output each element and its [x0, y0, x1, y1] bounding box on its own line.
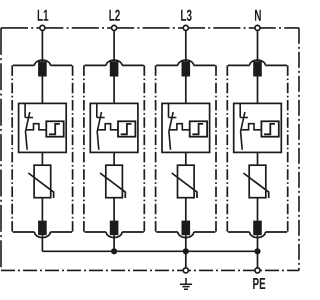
monitoring box L2 [90, 103, 138, 152]
wire L2 terminal to top disconnector [113, 30, 115, 61]
wire L1 terminal to top disconnector [41, 30, 43, 61]
protection module outline L1 (dash-dot sides, plug contacts top/bottom) [12, 60, 72, 238]
thermal disconnector top N [253, 61, 262, 76]
wire bottom disconnector to PE bus L1 [41, 235, 43, 251]
switch contact N [240, 103, 248, 149]
wire bottom disconnector to PE bus N [257, 235, 259, 251]
wire monitoring box to varistor L1 [41, 152, 43, 165]
switch contact L3 [169, 103, 177, 149]
wire N terminal to top disconnector [257, 30, 259, 61]
junction dot L3/bus [183, 248, 189, 254]
terminal L2 [112, 25, 117, 30]
indicator step symbol L1 [49, 124, 60, 134]
varistor N [243, 165, 268, 198]
varistor L1 [28, 165, 53, 198]
protection module outline L2 (dash-dot sides, plug contacts top/bottom) [84, 60, 144, 238]
wire bus to earth terminal [185, 251, 187, 267]
indicator window L3 [190, 121, 207, 136]
wire bottom disconnector to PE bus L2 [113, 235, 115, 251]
indicator window L2 [118, 121, 135, 136]
indicator step symbol L3 [192, 124, 203, 134]
thermal disconnector top L3 [182, 61, 191, 76]
label N [255, 10, 261, 21]
wire disconnector to monitoring box L3 [185, 77, 187, 104]
thermal disconnector top L2 [110, 61, 119, 76]
pulse signal line N [241, 124, 261, 130]
label L2 [109, 10, 120, 21]
switch contact L2 [97, 103, 105, 149]
terminal N [255, 25, 260, 30]
thermal disconnector bottom N [253, 221, 262, 236]
enclosure boundary (dash-dot outer box) [1, 28, 299, 271]
indicator window N [261, 121, 278, 136]
wire L3 terminal to top disconnector [185, 30, 187, 61]
thermal disconnector bottom L2 [110, 221, 119, 236]
pulse signal line L1 [26, 124, 46, 130]
wire monitoring box to varistor N [257, 152, 259, 165]
wire varistor to bottom disconnector N [257, 198, 259, 221]
pulse signal line L3 [169, 124, 189, 130]
junction dot L2/bus [111, 248, 117, 254]
thermal disconnector bottom L1 [38, 221, 47, 236]
wire monitoring box to varistor L2 [113, 152, 115, 165]
wire disconnector to monitoring box L1 [41, 77, 43, 104]
monitoring box N [234, 103, 282, 152]
thermal disconnector top L1 [38, 61, 47, 76]
indicator window L1 [46, 121, 63, 136]
wire disconnector to monitoring box N [257, 77, 259, 104]
monitoring box L1 [19, 103, 67, 152]
ground symbol [180, 278, 192, 289]
label PE [253, 278, 265, 289]
protection module outline L3 (dash-dot sides, plug contacts top/bottom) [156, 60, 216, 238]
PE terminal circle [255, 268, 260, 273]
wire varistor to bottom disconnector L1 [41, 198, 43, 221]
wire disconnector to monitoring box L2 [113, 77, 115, 104]
indicator step symbol N [264, 124, 275, 134]
earth terminal circle [183, 268, 188, 273]
PE bus wire [42, 250, 257, 252]
protection module outline N (dash-dot sides, plug contacts top/bottom) [227, 60, 287, 237]
monitoring box L3 [162, 103, 210, 152]
label L3 [181, 10, 192, 21]
junction dot N/bus [254, 248, 260, 254]
pulse signal line L2 [98, 124, 118, 130]
terminal L3 [183, 25, 188, 30]
label L1 [38, 10, 49, 21]
wire varistor to bottom disconnector L2 [113, 198, 115, 221]
wire monitoring box to varistor L3 [185, 152, 187, 165]
wire varistor to bottom disconnector L3 [185, 198, 187, 221]
wire bottom disconnector to PE bus L3 [185, 235, 187, 251]
varistor L3 [172, 165, 197, 198]
wire bus to PE terminal [257, 251, 259, 267]
terminal L1 [40, 25, 45, 30]
switch contact L1 [25, 103, 33, 149]
indicator step symbol L2 [121, 124, 132, 134]
varistor L2 [100, 165, 125, 198]
thermal disconnector bottom L3 [182, 221, 191, 236]
